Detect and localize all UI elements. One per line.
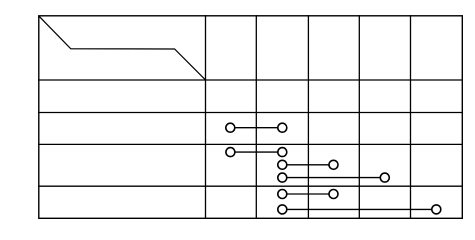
bar 2 start node: [226, 148, 235, 157]
bar 1 end node: [278, 123, 287, 132]
bar 3 end node: [329, 160, 338, 169]
column line x=308.4: [307, 16, 309, 219]
row line y=186.2: [39, 185, 463, 187]
bar 6 line: [282, 208, 436, 210]
row line y=144.4: [39, 143, 463, 145]
bar 3 line: [282, 164, 333, 166]
bar 4 end node: [380, 173, 389, 182]
column line x=205.5: [205, 16, 207, 219]
bar 2 line: [230, 151, 282, 153]
column line x=410.5: [410, 16, 412, 219]
header zigzag divider: [39, 16, 205, 80]
bar 6 end node: [432, 205, 441, 214]
table outer border: [39, 16, 463, 219]
row line y=80: [39, 79, 463, 81]
bar 2 end node: [278, 148, 287, 157]
bar 3 start node: [278, 160, 287, 169]
bar 5 start node: [278, 190, 287, 199]
bar 1 line: [230, 127, 282, 129]
bar 5 line: [282, 193, 333, 195]
bar 4 start node: [278, 173, 287, 182]
row line y=112.5: [39, 112, 463, 114]
column line x=359.3: [358, 16, 360, 219]
bar 4 line: [282, 177, 385, 179]
bar 6 start node: [278, 205, 287, 214]
bar 5 end node: [329, 190, 338, 199]
bar 1 start node: [226, 123, 235, 132]
column line x=256.3: [255, 16, 257, 219]
